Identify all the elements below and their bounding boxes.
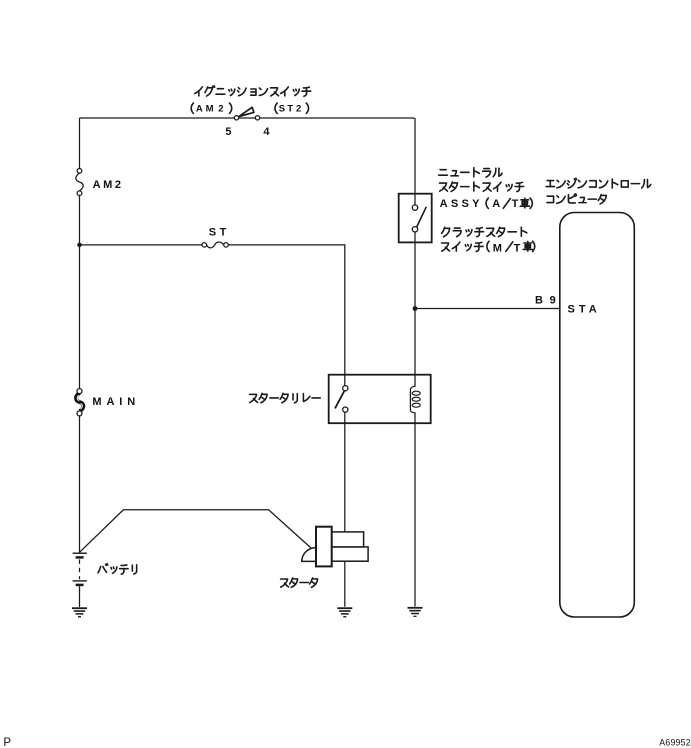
svg-text:A: A: [196, 104, 203, 115]
svg-text:B 9: B 9: [535, 295, 558, 307]
svg-text:STA: STA: [568, 303, 601, 315]
svg-text:AM2: AM2: [93, 179, 124, 191]
svg-text:5: 5: [225, 126, 231, 138]
svg-text:ASSY: ASSY: [440, 198, 483, 210]
svg-text:4: 4: [263, 126, 270, 138]
svg-text:P: P: [3, 737, 11, 748]
svg-text:M: M: [206, 104, 214, 115]
svg-text:S: S: [279, 104, 285, 115]
svg-text:M: M: [493, 242, 502, 254]
svg-text:2: 2: [296, 104, 301, 115]
svg-text:T: T: [514, 242, 521, 254]
svg-text:MAIN: MAIN: [92, 396, 140, 408]
svg-text:T: T: [512, 198, 519, 210]
svg-text:A: A: [492, 198, 500, 210]
svg-text:ST: ST: [209, 227, 230, 239]
svg-text:A69952: A69952: [659, 737, 691, 747]
svg-text:T: T: [287, 104, 293, 115]
svg-text:2: 2: [218, 104, 223, 115]
